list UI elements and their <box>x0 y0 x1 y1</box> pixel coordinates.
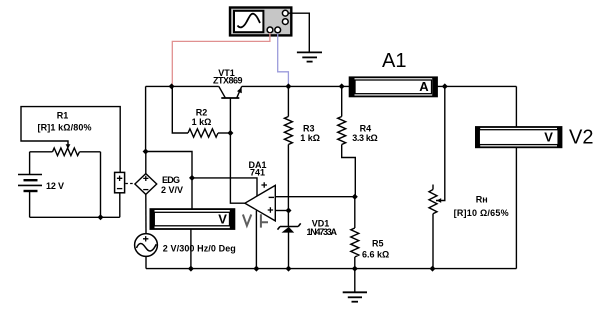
svg-text:A1: A1 <box>382 50 406 72</box>
svg-text:3.3 kΩ: 3.3 kΩ <box>352 133 378 143</box>
dashed control link <box>125 183 134 185</box>
svg-text:R5: R5 <box>372 239 384 249</box>
wire battery bottom <box>29 192 31 217</box>
potentiometer Rn <box>429 185 437 269</box>
resistor R4 <box>338 86 356 196</box>
node op-amp pin bottom junction <box>253 266 259 272</box>
svg-text:741: 741 <box>250 168 265 178</box>
svg-text:Rн: Rн <box>476 195 488 205</box>
battery 12V <box>18 175 42 192</box>
op-amp DA1 741 <box>245 182 275 221</box>
oscilloscope XSC1 <box>230 8 291 36</box>
controlled source EDG (VCVS diamond) <box>135 174 157 195</box>
svg-text:2 V/300 Hz/0 Deg: 2 V/300 Hz/0 Deg <box>163 243 236 253</box>
node A1 right junction <box>442 83 448 89</box>
resistor R2 <box>172 86 230 137</box>
node R4 top junction <box>339 83 345 89</box>
node R2 right junction <box>227 130 233 136</box>
node R5 bottom junction <box>352 266 358 272</box>
voltmeter V2 <box>476 127 562 147</box>
node left rail / diamond junction <box>143 149 149 155</box>
wire right rail bottom <box>515 147 517 268</box>
node zener bottom junction <box>286 266 292 272</box>
zener diode VD1 <box>278 223 301 268</box>
node R4 / R5 / inverting input junction <box>352 194 358 200</box>
wire left rail <box>145 86 147 151</box>
wire scope to ground <box>288 13 309 51</box>
wire left loop bottom <box>30 193 120 217</box>
wire top rail <box>146 85 517 87</box>
svg-text:2 V/V: 2 V/V <box>161 185 183 195</box>
svg-text:V: V <box>544 130 553 145</box>
wire op-amp inverting input to R5 node <box>275 196 355 198</box>
wire scope channel A (red) <box>172 33 270 85</box>
node V1 top junction <box>189 175 195 181</box>
node blue-wire / R3 junction <box>285 83 291 89</box>
potentiometer R1 body <box>30 148 101 156</box>
sine source <box>135 234 158 257</box>
wire node to V1 top <box>146 152 192 178</box>
svg-text:1 kΩ: 1 kΩ <box>300 133 320 143</box>
label V1 (gray) <box>243 214 268 227</box>
wire op-amp + input to zener node <box>275 210 288 212</box>
svg-text:V2: V2 <box>569 127 593 149</box>
svg-text:6.6 kΩ: 6.6 kΩ <box>362 250 389 260</box>
svg-text:[R]1 kΩ/80%: [R]1 kΩ/80% <box>38 123 92 133</box>
svg-text:R4: R4 <box>360 123 372 133</box>
svg-text:A: A <box>419 79 429 94</box>
svg-text:12 V: 12 V <box>46 181 64 191</box>
node Rn bottom junction <box>430 266 436 272</box>
svg-text:R3: R3 <box>303 123 315 133</box>
wire R5 node to ground <box>354 269 356 292</box>
wire R1 right column <box>100 152 102 218</box>
svg-text:V: V <box>218 211 227 226</box>
wire node to op-amp top pin <box>192 178 257 196</box>
wire scope channel B (blue) <box>278 33 289 85</box>
svg-text:EDG: EDG <box>162 175 180 185</box>
wire A1 node down to Rn wiper <box>436 86 445 200</box>
svg-text:1N4733A: 1N4733A <box>307 227 338 237</box>
resistor R5 <box>351 197 359 269</box>
resistor R3 <box>284 86 292 226</box>
current sensor probe <box>115 172 125 192</box>
svg-text:ZTX869: ZTX869 <box>213 75 243 85</box>
wire VT1 base column to op-amp output <box>230 98 245 203</box>
ground (bottom) <box>343 292 367 301</box>
wire V1 bottom <box>190 229 192 269</box>
transistor VT1 <box>219 86 242 98</box>
node left loop bottom junction <box>98 214 104 220</box>
wire node down to V1 <box>191 178 193 209</box>
wire sine bottom <box>145 256 147 268</box>
svg-text:[R]10 Ω/65%: [R]10 Ω/65% <box>454 208 509 218</box>
potentiometer R1 wiper routing <box>21 107 120 173</box>
wire bottom rail <box>146 268 516 270</box>
ground (scope) <box>297 52 322 61</box>
ammeter A1 <box>350 77 437 96</box>
wire R1 left column <box>29 152 31 174</box>
svg-text:1 kΩ: 1 kΩ <box>192 117 212 127</box>
wire diamond bottom to sine top <box>145 194 147 233</box>
node V1 bottom junction <box>188 266 194 272</box>
svg-text:R2: R2 <box>196 108 208 118</box>
wire right rail top <box>515 86 517 127</box>
wire diamond top to rail <box>145 152 147 174</box>
node red-wire junction <box>169 83 175 89</box>
wire op-amp bottom pin to bottom rail <box>255 210 257 268</box>
svg-text:R1: R1 <box>57 111 69 121</box>
node zener / + input junction <box>286 208 292 214</box>
voltmeter V1 <box>150 209 234 229</box>
